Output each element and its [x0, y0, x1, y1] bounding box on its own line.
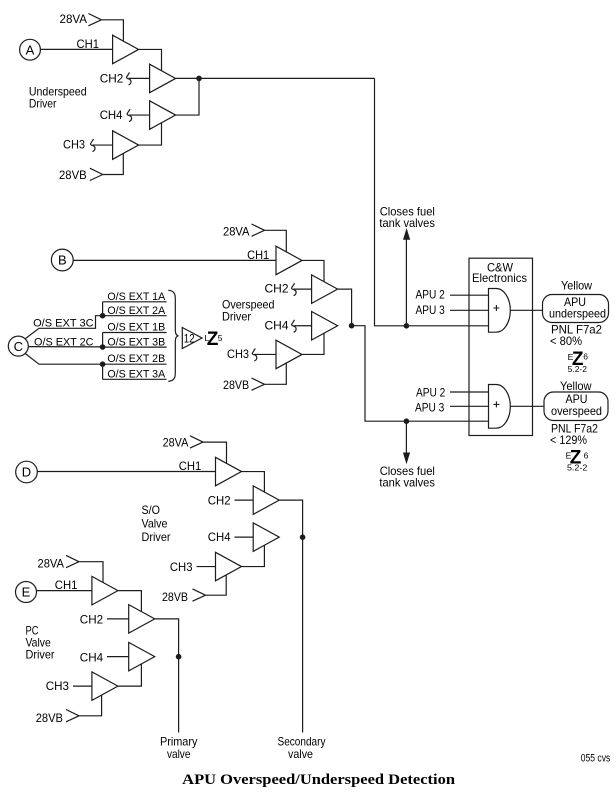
svg-text:CH4: CH4	[100, 108, 123, 122]
break squiggle CH2	[127, 73, 132, 86]
svg-text:CH2: CH2	[265, 282, 289, 296]
node B input circle	[51, 249, 73, 271]
wire CH3 to U12	[197, 566, 216, 568]
wire to fuel valves top	[405, 240, 407, 326]
svg-text:Yellow: Yellow	[560, 379, 592, 393]
power stub 28VA E	[66, 555, 79, 567]
wire U12 out to U11	[242, 545, 265, 566]
svg-text:055 cvs: 055 cvs	[581, 752, 611, 764]
node C input circle	[8, 336, 28, 356]
wire 28VB to U4	[103, 153, 124, 174]
wire U16 out to U15	[118, 664, 141, 686]
wire 28VA to U13	[79, 562, 103, 583]
svg-text:APU Overspeed/Underspeed Detec: APU Overspeed/Underspeed Detection	[182, 772, 456, 788]
svg-text:D: D	[22, 465, 31, 480]
amplifier U6 CH2	[312, 275, 338, 304]
svg-text:APU 2: APU 2	[416, 288, 446, 302]
svg-text:CH4: CH4	[80, 651, 104, 665]
svg-text:CH1: CH1	[77, 37, 100, 51]
amplifier U3 CH4	[150, 101, 176, 130]
arrow fuel valves bottom	[403, 453, 410, 465]
svg-text:E: E	[22, 585, 31, 600]
svg-text:CH3: CH3	[46, 679, 70, 693]
svg-text:CH2: CH2	[100, 71, 124, 85]
wire overspeed to C&W	[352, 326, 489, 422]
wire 28VB to U16	[79, 695, 102, 716]
power stub 28VB D	[193, 589, 206, 601]
svg-text:28VA: 28VA	[60, 12, 88, 26]
wire 28VA to U1	[101, 20, 123, 42]
wire CH2 to U14	[107, 618, 129, 620]
svg-text:APU 3: APU 3	[416, 303, 446, 317]
wire 28VB to U12	[206, 575, 227, 595]
wire APU 3 top	[450, 309, 489, 311]
summing gate overspeed	[489, 385, 511, 429]
wire under 1B	[103, 332, 167, 334]
svg-text:5.2-2: 5.2-2	[567, 463, 588, 472]
wire CH3 to U8	[254, 353, 276, 355]
amplifier U11 CH4	[253, 523, 279, 552]
svg-text:overspeed: overspeed	[551, 404, 602, 418]
plus sign top gate	[493, 305, 499, 311]
brace grouping O/S EXT	[168, 290, 178, 381]
wire U6 out down	[338, 289, 352, 326]
wire U13 out to U14	[118, 591, 141, 612]
svg-text:12: 12	[184, 332, 195, 346]
wire C to 2C pair	[28, 346, 102, 348]
svg-text:APU 2: APU 2	[416, 385, 446, 399]
wire U10 out down	[279, 500, 302, 537]
wire U1 out to U2	[139, 49, 162, 70]
wire U8 out to U7	[302, 333, 324, 354]
wire gate out to APU underspeed	[510, 309, 542, 311]
svg-text:28VB: 28VB	[162, 590, 188, 604]
svg-text:6: 6	[583, 352, 588, 362]
svg-text:valve: valve	[167, 747, 191, 761]
junction fuel valves bottom	[404, 418, 410, 424]
power stub 28VA B	[252, 224, 265, 236]
svg-text:5.2-2: 5.2-2	[568, 365, 588, 374]
svg-text:Electronics: Electronics	[472, 271, 527, 285]
wire 28VA to U5	[265, 230, 287, 252]
power stub 28VB B	[252, 378, 265, 390]
svg-text:CH3: CH3	[63, 137, 85, 151]
wire B CH1 to U5	[73, 259, 276, 261]
svg-text:Valve: Valve	[142, 516, 168, 530]
break squiggle CH3 B	[252, 349, 257, 362]
svg-text:Driver: Driver	[142, 530, 171, 544]
wire E CH1 to U13	[37, 590, 92, 592]
svg-text:CH3: CH3	[170, 560, 193, 574]
svg-text:28VB: 28VB	[223, 378, 249, 392]
amplifier U7 CH4	[312, 312, 338, 341]
wire U3 out to node	[176, 78, 199, 115]
svg-text:CH1: CH1	[55, 578, 78, 592]
wire joining 1A 2A	[102, 302, 104, 316]
svg-text:APU 3: APU 3	[415, 400, 445, 414]
break squiggle CH4	[127, 109, 132, 122]
off-page connector 12	[182, 328, 202, 349]
wire under 2B	[103, 363, 167, 365]
wire secondary valve	[302, 537, 304, 732]
break squiggle CH4 B	[292, 320, 297, 333]
wire primary valve	[178, 657, 180, 733]
svg-text:B: B	[58, 253, 67, 268]
amplifier U13 CH1	[92, 576, 118, 605]
node D input circle	[16, 461, 38, 483]
wire joining 1B 3B	[102, 333, 104, 348]
svg-text:28VB: 28VB	[59, 168, 87, 182]
wire U4 out to U3	[139, 123, 162, 146]
wire APU 2 bottom	[450, 391, 489, 393]
svg-text:5: 5	[218, 333, 223, 343]
node A input circle	[20, 39, 41, 60]
amplifier U4 CH3	[113, 131, 139, 160]
wire 28VB to U8	[265, 363, 287, 384]
svg-text:C: C	[14, 339, 23, 354]
wire CH2 to U6	[294, 288, 312, 290]
node E input circle	[16, 582, 37, 603]
power stub 28VB	[90, 168, 103, 180]
amplifier U2 CH2	[150, 64, 176, 93]
wire CH4 to U11	[235, 536, 254, 538]
svg-text:O/S EXT 3C: O/S EXT 3C	[33, 317, 94, 329]
plus sign bottom gate	[493, 401, 499, 407]
wire CH4 to U15	[107, 656, 129, 658]
svg-text:CH3: CH3	[227, 347, 249, 361]
amplifier U9 CH1	[216, 457, 242, 486]
svg-text:28VA: 28VA	[38, 556, 65, 570]
svg-text:underspeed: underspeed	[549, 307, 606, 321]
wire joining 2B 3A	[102, 364, 104, 379]
junction 2B3A	[100, 361, 106, 367]
wire CH3 to U4	[93, 144, 113, 146]
wire C to third pair	[25, 354, 102, 365]
svg-text:28VB: 28VB	[36, 711, 63, 725]
svg-text:tank valves: tank valves	[379, 476, 435, 490]
svg-text:S/O: S/O	[142, 503, 161, 517]
wire under 2A	[103, 315, 167, 317]
junction 1B3B	[100, 344, 106, 350]
wire 28VA to U9	[203, 442, 227, 463]
svg-text:28VA: 28VA	[163, 435, 189, 449]
annunciator APU underspeed	[543, 295, 609, 323]
junction 1A2A	[100, 313, 106, 319]
wire U14 out down	[155, 619, 179, 657]
amplifier U10 CH2	[253, 486, 279, 515]
wire CH2 to U10	[235, 499, 254, 501]
summing gate underspeed	[489, 289, 511, 333]
wire C to 3C pair	[25, 316, 102, 339]
svg-text:Driver: Driver	[29, 96, 57, 110]
amplifier U14 CH2	[129, 605, 155, 634]
amplifier U8 CH3	[276, 340, 302, 369]
svg-text:O/S EXT 2B: O/S EXT 2B	[107, 353, 165, 365]
wire underspeed to C&W	[176, 77, 375, 79]
svg-text:6: 6	[584, 450, 589, 460]
amplifier U5 CH1	[276, 246, 302, 275]
junction fuel valves top	[404, 323, 410, 329]
svg-text:CH2: CH2	[80, 613, 104, 627]
annunciator APU overspeed	[544, 392, 608, 421]
svg-text:Driver: Driver	[222, 310, 251, 324]
junction overspeed out	[349, 323, 355, 329]
wire CH4 to U7	[294, 325, 312, 327]
wire underspeed vertical	[375, 78, 489, 325]
box C&W Electronics	[469, 258, 533, 435]
amplifier U1 CH1	[113, 35, 139, 64]
arrow fuel valves top	[403, 228, 410, 240]
wire APU 3 bottom	[450, 405, 489, 407]
power stub 28VA D	[190, 436, 203, 448]
junction S/O out	[300, 534, 306, 540]
amplifier U15 CH4	[129, 642, 155, 671]
svg-text:tank valves: tank valves	[379, 216, 435, 230]
junction PC out	[176, 654, 182, 660]
wire CH4 to U3	[129, 114, 150, 116]
wire U9 out to U10	[242, 472, 265, 493]
wire A CH1 to U1	[40, 48, 112, 50]
svg-text:< 80%: < 80%	[550, 334, 582, 348]
wire gate out to APU overspeed	[510, 405, 544, 407]
svg-text:Yellow: Yellow	[561, 279, 592, 293]
break squiggle CH3	[91, 139, 96, 152]
amplifier U12 CH3	[216, 552, 242, 581]
wire CH3 to U16	[73, 685, 92, 687]
svg-text:CH1: CH1	[247, 248, 269, 262]
wire CH2 to U2	[129, 77, 150, 79]
svg-text:28VA: 28VA	[223, 225, 250, 239]
svg-text:CH2: CH2	[208, 494, 231, 508]
wire under 1A	[103, 301, 167, 303]
wire to fuel valves bottom	[405, 421, 407, 453]
svg-text:CH4: CH4	[208, 530, 231, 544]
svg-text:CH1: CH1	[179, 459, 202, 473]
power stub 28VA	[88, 14, 101, 26]
svg-text:O/S EXT 1B: O/S EXT 1B	[107, 321, 165, 333]
svg-text:< 129%: < 129%	[550, 433, 587, 447]
wire APU 2 top	[450, 294, 489, 296]
svg-text:valve: valve	[288, 747, 313, 761]
svg-text:CH4: CH4	[265, 318, 289, 332]
wire U5 out to U6	[302, 260, 324, 281]
svg-text:Driver: Driver	[26, 647, 55, 661]
break squiggle CH2 B	[292, 283, 297, 296]
amplifier U16 CH3	[92, 672, 118, 701]
wire D CH1 to U9	[37, 471, 215, 473]
junction underspeed out	[196, 76, 202, 82]
wire under 3B	[103, 346, 167, 348]
svg-text:A: A	[26, 42, 35, 57]
power stub 28VB E	[66, 710, 79, 722]
wire under 3A	[103, 378, 167, 380]
svg-text:O/S EXT 1A: O/S EXT 1A	[107, 291, 166, 303]
